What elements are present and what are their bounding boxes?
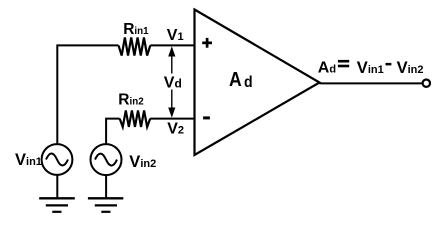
V_d arrow shaft — [171, 50, 173, 114]
output terminal circle — [423, 80, 430, 87]
source V_in2 — [91, 144, 122, 175]
wire R_in1 to op-amp + input — [150, 44, 194, 46]
resistor R_in2 — [120, 110, 151, 127]
svg-text:Vd: Vd — [164, 75, 182, 92]
op-amp - input sign — [203, 116, 210, 119]
output wire — [320, 82, 423, 84]
wire R_in2 to op-amp - input — [150, 118, 194, 120]
V_d arrowhead top — [168, 46, 175, 56]
wire V_in2 to ground — [105, 175, 107, 198]
source V_in1 — [42, 144, 73, 175]
ground (under V_in2) — [88, 198, 123, 212]
wire V_in1 to ground — [56, 175, 58, 198]
label V_d — [161, 74, 184, 90]
op-amp U1 — [195, 10, 320, 156]
wire V_in2 up and across to R_in2 — [106, 119, 120, 145]
V_d arrowhead bottom — [168, 108, 175, 118]
resistor R_in1 — [119, 38, 151, 56]
output equation label A_d = V_in1 - V_in2 — [318, 59, 424, 77]
wire top-left: V_in1 up and across to R_in1 — [57, 45, 118, 145]
op-amp + input sign — [202, 38, 212, 48]
ground (under V_in1) — [39, 198, 75, 212]
